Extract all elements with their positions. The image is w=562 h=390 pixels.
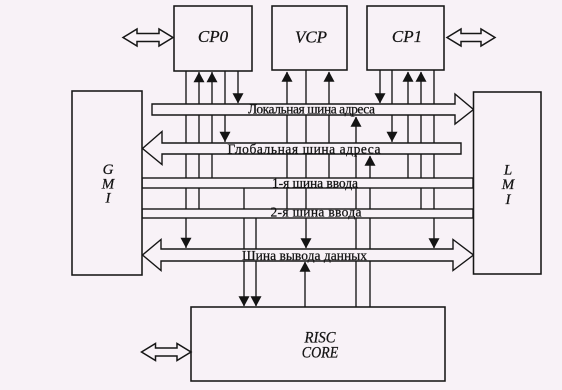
svg-text:CORE: CORE — [302, 345, 339, 362]
svg-text:CP1: CP1 — [392, 27, 422, 46]
svg-text:I: I — [505, 192, 512, 208]
svg-text:VCP: VCP — [295, 28, 327, 47]
svg-text:Локальная шина адреса: Локальная шина адреса — [248, 101, 375, 116]
svg-text:2-я шина ввода: 2-я шина ввода — [271, 205, 362, 220]
svg-text:M: M — [501, 177, 516, 193]
svg-text:Шина вывода данных: Шина вывода данных — [242, 248, 367, 263]
svg-text:1-я шина ввода: 1-я шина ввода — [272, 175, 358, 190]
svg-text:Глобальная шина адреса: Глобальная шина адреса — [228, 141, 381, 156]
svg-text:I: I — [105, 191, 112, 207]
svg-text:CP0: CP0 — [198, 27, 229, 46]
